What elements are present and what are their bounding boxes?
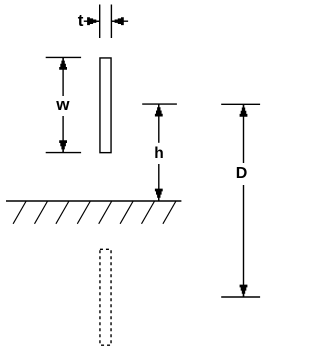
- svg-text:w: w: [55, 95, 70, 114]
- extension tick left (strip left edge): [99, 5, 101, 39]
- dimension D down arrowhead: [240, 285, 248, 297]
- svg-text:D: D: [236, 165, 248, 182]
- dimension h lower arrow line: [158, 164, 160, 201]
- dimension w down arrowhead: [59, 140, 67, 152]
- dimension D top extension bar: [221, 103, 260, 105]
- dimension D bottom extension bar: [221, 296, 260, 298]
- image strip (dashed rectangle below ground): [100, 249, 111, 345]
- dimension t right arrowhead (points left): [111, 17, 123, 25]
- ground hatch 1: [13, 201, 26, 224]
- dimension h top extension bar: [142, 103, 177, 105]
- dimension t left arrowhead (points right): [87, 17, 99, 25]
- ground hatch 5: [99, 201, 112, 224]
- dimension h down arrowhead: [155, 189, 163, 201]
- ground hatch 7: [142, 201, 155, 224]
- ground hatch 6: [120, 201, 133, 224]
- dimension D up arrowhead: [240, 104, 248, 116]
- ground plane line: [6, 200, 181, 202]
- dimension D upper arrow line: [243, 104, 245, 163]
- dimension h up arrowhead: [155, 104, 163, 116]
- ground hatch 4: [77, 201, 90, 224]
- dimension w lower arrow line: [62, 116, 64, 153]
- dimension w upper arrow line: [62, 57, 64, 96]
- dimension w top extension bar: [46, 56, 81, 58]
- svg-text:h: h: [154, 145, 163, 162]
- dimension h upper arrow line: [158, 104, 160, 143]
- ground hatch 3: [56, 201, 69, 224]
- dimension w up arrowhead: [59, 57, 67, 69]
- svg-text:t: t: [78, 11, 84, 30]
- extension tick right (strip right edge): [110, 5, 112, 39]
- strip conductor (solid rectangle): [100, 58, 111, 153]
- ground hatch 8: [163, 201, 176, 224]
- ground hatch 2: [35, 201, 48, 224]
- dimension t left arrow line: [84, 20, 100, 22]
- dimension w bottom extension bar: [46, 152, 81, 154]
- dimension D lower arrow line: [243, 185, 245, 297]
- dimension t right arrow line: [111, 20, 128, 22]
